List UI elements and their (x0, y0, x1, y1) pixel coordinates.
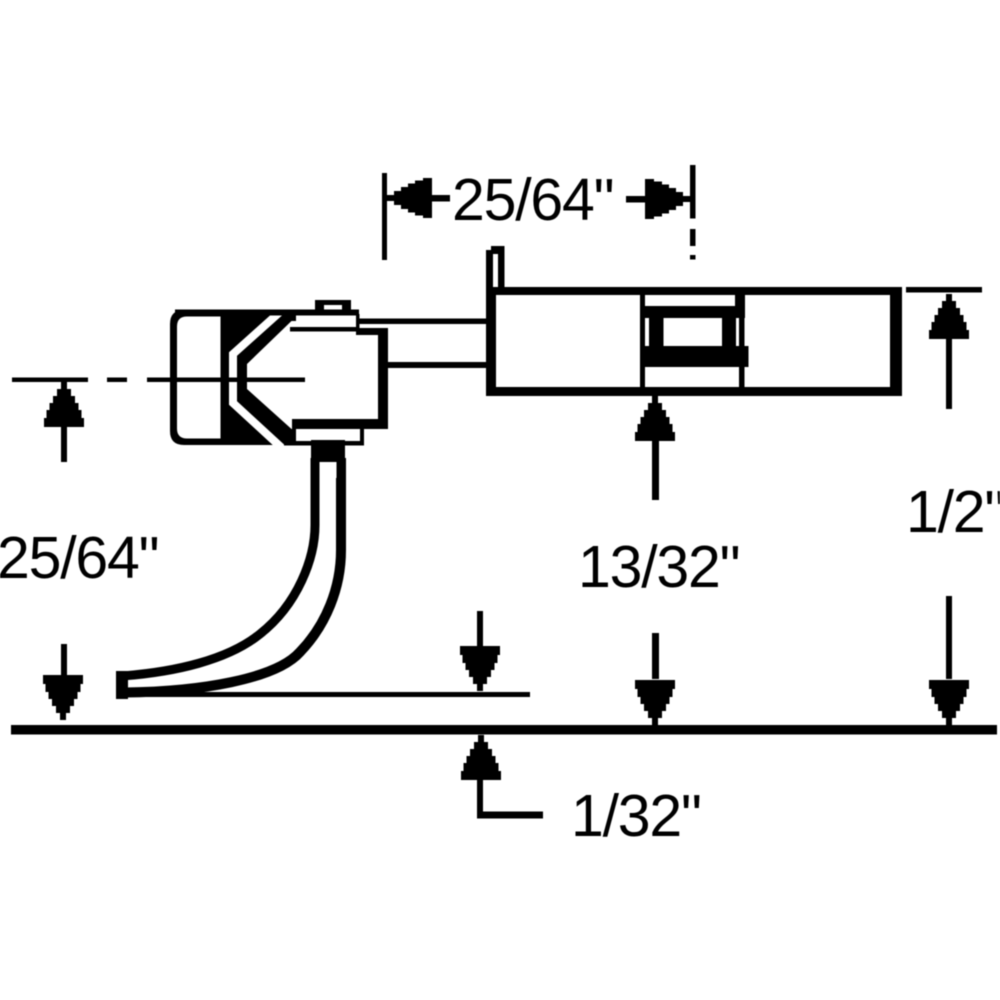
down arrow at ground (635, 680, 675, 725)
top pivot bump (315, 300, 351, 312)
spring right web (722, 318, 736, 346)
shank top line (360, 319, 488, 325)
mounting tab top cap (491, 246, 504, 254)
trip pin outer wall curve (122, 458, 341, 693)
head interior white polygon (inner edge of jaw C-band) (247, 321, 378, 429)
extension line at gear box top (906, 287, 982, 293)
up arrow stem (477, 775, 483, 818)
trip pin height reference line (122, 692, 530, 697)
up arrow stem (652, 438, 659, 500)
leader line to label (477, 812, 543, 819)
head box interior white (296, 330, 378, 425)
down arrow at pin reference line (460, 646, 500, 691)
center post right top block (735, 295, 745, 318)
down arrow at ground (929, 680, 969, 725)
down arrow stem (946, 596, 952, 679)
left dimension 25/64 inch (0, 382, 158, 720)
extension line at head rear face (382, 173, 387, 260)
lower shelf white (296, 429, 360, 441)
head box top edge (356, 328, 388, 335)
svg-text:1/2": 1/2" (906, 479, 1000, 545)
center post right line (739, 295, 745, 387)
coupler centerline dash-dot (left segment) (12, 378, 88, 383)
kingpin centerline dot (690, 255, 696, 260)
head box right edge (378, 328, 388, 429)
up arrow at gear box bottom (635, 396, 675, 441)
coupler centerline long segment through head (147, 378, 305, 383)
left arrow tail (430, 195, 450, 202)
kingpin centerline dash (690, 229, 696, 246)
bottom dimension 1/32 inch (460, 611, 701, 849)
up arrow stem (946, 337, 952, 409)
kingpin centerline solid segment (690, 165, 696, 219)
right dimension 1/2 inch (906, 287, 1000, 725)
up arrow stem (61, 427, 67, 462)
down arrow stem (61, 644, 67, 682)
knuckle jaw black block (219, 310, 296, 445)
spring left web (649, 318, 664, 346)
gear box outline (486, 287, 902, 396)
lower shelf right edge (360, 427, 364, 445)
shank bottom line (387, 362, 487, 368)
center post left line (640, 295, 645, 387)
draft gear box (486, 246, 902, 396)
up arrow at box top (929, 294, 969, 339)
down arrow stem (477, 611, 483, 651)
knuckle inner white face (177, 317, 221, 439)
top dimension 25/64 inch (382, 167, 690, 260)
centerline redrawn over head (147, 378, 305, 383)
middle dimension 13/32 inch (578, 396, 739, 725)
mounting tab left prong (486, 250, 493, 295)
head box bottom edge (292, 419, 388, 429)
knuckle outer outline (170, 310, 226, 445)
coupler centerline short dash (107, 378, 127, 383)
trip pin shank white gap (320, 462, 337, 478)
upper shelf white (297, 316, 356, 328)
svg-text:25/64": 25/64" (452, 167, 613, 233)
upper shelf right edge (356, 314, 360, 331)
head top edge line (175, 310, 359, 316)
left arrow (387, 178, 432, 218)
mounting tab right prong (498, 246, 505, 288)
svg-text:1/32": 1/32" (571, 783, 701, 849)
up arrow under ground (461, 735, 501, 780)
down arrow stem (652, 633, 659, 679)
lower shelf bottom edge (284, 441, 364, 446)
trip pin inner wall curve (122, 458, 315, 676)
centering spring bottom flange (640, 346, 749, 367)
down arrow at ground (43, 675, 83, 720)
right arrow (645, 179, 690, 219)
centering spring top flange (640, 306, 745, 318)
trip pin shank black bar (311, 440, 345, 462)
up arrow at centerline (44, 382, 84, 427)
coupler head (147, 300, 388, 449)
rail head ground line (11, 725, 997, 735)
trip pin (116, 440, 345, 699)
svg-text:13/32": 13/32" (578, 534, 739, 600)
svg-text:25/64": 25/64" (0, 525, 158, 591)
trip pin end cap (116, 671, 128, 699)
upper shelf bottom edge (290, 327, 360, 332)
right arrow tail (626, 196, 646, 203)
white chevron highlight stripe of jaw (233, 311, 283, 449)
